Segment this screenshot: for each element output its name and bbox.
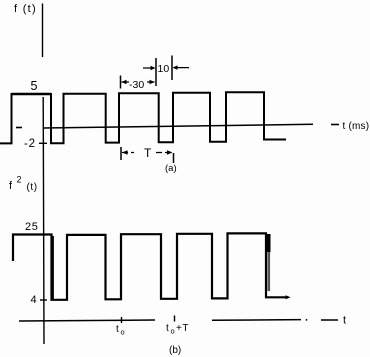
dimension 10 arrows and label (143, 67, 189, 69)
tick t_o+T (174, 316, 176, 322)
dimension T arrows and label (122, 152, 172, 154)
svg-text:25: 25 (25, 221, 38, 233)
svg-text:-30: -30 (129, 79, 144, 91)
t-axis graph b right segment (212, 319, 301, 322)
axis arrow label t (321, 319, 338, 321)
svg-text:T: T (144, 146, 152, 160)
bold top of first pulse (12, 93, 52, 96)
svg-text:(b): (b) (169, 345, 181, 356)
square wave graph b (13, 233, 288, 299)
y-axis long segment through both graphs (42, 97, 45, 344)
t-axis graph a (43, 124, 313, 128)
svg-text:f (t): f (t) (14, 3, 37, 15)
bold fall edge pulse 5 graph b (267, 234, 271, 252)
svg-text:t: t (116, 324, 119, 335)
svg-text:4: 4 (31, 294, 37, 306)
svg-text:(a): (a) (165, 163, 177, 174)
y-axis upper segment graph a (42, 4, 44, 58)
bold fall edge pulse 1 graph b (51, 236, 54, 299)
small dot on axis graph b (306, 319, 308, 321)
square wave graph a (0, 92, 286, 143)
dimension bar right of 10 (171, 56, 173, 81)
arrow end of bottom tail graph b (283, 296, 289, 298)
dimension bar shared 30/10 (155, 58, 157, 86)
svg-text:(t): (t) (27, 182, 38, 193)
dimension bar left of 30 (120, 76, 122, 89)
tick 4 (40, 299, 47, 301)
svg-text:t: t (343, 315, 346, 327)
svg-text:5: 5 (31, 79, 38, 93)
svg-text:o: o (171, 327, 175, 336)
svg-text:+T: +T (176, 323, 189, 334)
svg-text:2: 2 (17, 175, 22, 185)
svg-text:-2: -2 (24, 138, 36, 150)
svg-text:10: 10 (158, 63, 170, 75)
dimension T bars (120, 147, 122, 160)
svg-text:f: f (9, 180, 13, 192)
axis arrow label t(ms) (331, 124, 339, 126)
t-axis graph b left segment (19, 320, 155, 321)
left dash near t-axis (16, 127, 22, 129)
svg-text:t: t (166, 323, 169, 334)
dimension 30 arrows and label (122, 81, 155, 83)
svg-text:t (ms): t (ms) (343, 121, 370, 132)
tick -2 (39, 142, 47, 144)
tick t_o (121, 317, 123, 323)
svg-text:o: o (121, 328, 125, 337)
